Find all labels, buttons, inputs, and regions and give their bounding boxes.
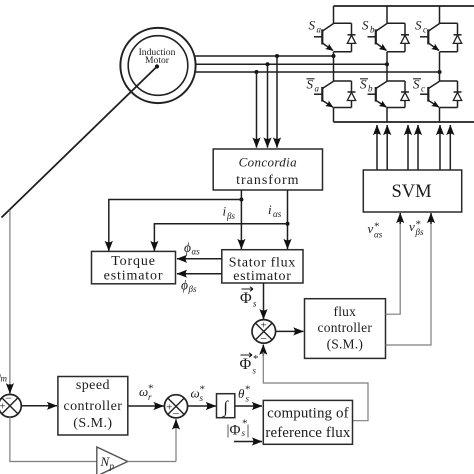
label omega_m: [0, 367, 8, 384]
leg b upper IGBT S_b: [368, 6, 410, 81]
wire: phase line c: [195, 71, 440, 73]
Stator flux estimator block: [222, 250, 303, 284]
wire: v_beta ref from flux controller to SVM (gray): [386, 220, 432, 345]
wire: gate signal Sc bar: [449, 125, 451, 170]
wire: omega_s star to integrator: [188, 405, 216, 407]
node: leg c phase junction: [438, 70, 442, 74]
label |Phi_s star|: [227, 418, 250, 439]
svg-text:S: S: [362, 18, 369, 33]
wire: Phi_s ref into flux junction (arrow): [262, 345, 264, 356]
wire: gate signal Sb: [407, 125, 409, 170]
svg-text:estimator: estimator: [104, 269, 164, 284]
svg-text:c: c: [423, 25, 427, 35]
svg-text:transform: transform: [236, 173, 299, 188]
svg-text:s: s: [246, 394, 250, 404]
svg-text:r: r: [148, 392, 152, 402]
svg-text:b: b: [370, 25, 375, 35]
induction motor M1: [120, 28, 195, 103]
svg-text:s: s: [253, 299, 257, 309]
summing junction 2: [164, 395, 187, 421]
svg-text:estimator: estimator: [233, 269, 291, 284]
label theta_s star: [238, 384, 251, 404]
wire: flux magnitude ref input: [234, 441, 262, 443]
label Phi_s vector: [240, 287, 257, 309]
svg-text:*: *: [253, 353, 259, 365]
node: i_beta branch: [239, 198, 243, 202]
svg-text:ω: ω: [139, 384, 148, 399]
svg-text:αs: αs: [374, 230, 383, 240]
wire: speed feedback (gray) from junction 1 down to Np: [10, 417, 96, 461]
label v_beta_s star: [409, 219, 424, 238]
label S_a bar: [307, 77, 320, 94]
Concordia transform block: [213, 149, 322, 190]
leg b lower IGBT S_b bar: [368, 81, 410, 122]
wire: Phi_s from stator flux estimator down to flux summing junction: [263, 283, 265, 319]
node: tap c: [255, 70, 259, 74]
svg-text:p: p: [109, 461, 115, 471]
svg-text:|: |: [247, 423, 250, 439]
speed summing junction (left): [0, 391, 21, 417]
wire: Phi_s ref routing (gray) from computing block: [263, 352, 368, 421]
svg-text:reference flux: reference flux: [265, 425, 350, 441]
svg-text:ϕ: ϕ: [184, 240, 191, 255]
wire: flux error to flux controller: [276, 330, 304, 332]
svg-text:S: S: [415, 18, 422, 33]
wire: current measurement c: [256, 72, 258, 148]
wire: Np output to junction 2 (gray): [128, 461, 176, 463]
wire: phi_alpha from stator flux est to torque est: [177, 258, 222, 260]
wire: speed sensor diagonal from motor: [2, 67, 158, 218]
label Phi_s star below junction: [240, 353, 259, 376]
svg-text:−: −: [260, 331, 267, 345]
leg c upper IGBT S_c: [420, 6, 462, 81]
svg-text:s: s: [253, 366, 257, 376]
svg-text:s: s: [242, 428, 246, 438]
label S_c bar: [413, 77, 425, 94]
svg-text:Torque: Torque: [111, 254, 156, 269]
wire: current measurement a down to Concordia: [276, 56, 278, 148]
wire: omega_m measured speed (gray vertical): [9, 210, 11, 384]
wire: gate signal Sa: [376, 125, 378, 170]
speed controller block: [58, 377, 128, 436]
wire: current measurement b: [267, 64, 269, 147]
svg-text:Concordia: Concordia: [239, 154, 297, 169]
node: tap b: [266, 62, 270, 66]
wire: DC bus bottom: [334, 121, 474, 123]
wire: gate signal Sb bar: [417, 125, 419, 170]
label i_beta_s: [223, 204, 236, 221]
svg-text:computing of: computing of: [267, 405, 349, 421]
svg-text:Motor: Motor: [145, 55, 170, 66]
svg-text:v: v: [409, 219, 415, 234]
wire: phase line b: [196, 63, 388, 65]
svg-text:βs: βs: [188, 284, 197, 294]
svg-text:a: a: [315, 84, 320, 94]
svg-text:(S.M.): (S.M.): [327, 336, 363, 351]
leg a lower IGBT S_a bar: [314, 81, 356, 122]
svg-text:(S.M.): (S.M.): [73, 416, 112, 431]
svg-text:−: −: [5, 391, 12, 405]
svg-text:+: +: [0, 401, 5, 413]
svg-text:v: v: [368, 221, 374, 236]
svg-text:ω: ω: [191, 386, 200, 401]
svg-text:S: S: [309, 18, 316, 33]
wire: i_beta from Concordia to Stator flux estimator: [240, 190, 242, 249]
svg-text:SVM: SVM: [391, 182, 431, 202]
wire: gate signal Sa bar: [386, 125, 388, 170]
leg a upper IGBT S_a: [314, 6, 356, 81]
svg-text:Φ: Φ: [240, 290, 252, 307]
svg-text:Φ: Φ: [240, 356, 252, 373]
wire: gate signal Sc: [439, 125, 441, 170]
wire: phase line a (motor to inverter leg a): [194, 55, 334, 57]
label i_alpha_s: [268, 202, 282, 219]
svg-text:i: i: [268, 202, 272, 217]
svg-text:s: s: [200, 393, 204, 403]
label omega_r star: [139, 383, 154, 402]
label S_a: [309, 18, 322, 35]
svg-text:+: +: [260, 320, 266, 332]
wire: theta_s star to computing block: [235, 405, 262, 407]
svg-text:θ: θ: [238, 386, 245, 401]
integrator block: [217, 394, 235, 418]
gain Np triangle: [97, 447, 128, 474]
wire: i_beta branch to Torque estimator: [109, 200, 242, 252]
label S_c: [415, 18, 427, 35]
svg-text:∫: ∫: [222, 398, 229, 418]
wire: i_alpha from Concordia to Stator flux estimator: [287, 190, 289, 249]
label S_b: [362, 18, 375, 35]
svg-text:αs: αs: [273, 209, 282, 219]
label v_alpha_s star: [368, 221, 383, 240]
svg-text:a: a: [317, 25, 322, 35]
Torque estimator block: [92, 251, 176, 283]
node: i_alpha branch: [286, 222, 290, 226]
svg-text:−: −: [173, 406, 180, 420]
svg-text:controller: controller: [63, 399, 122, 414]
flux controller block: [305, 299, 386, 359]
svg-text:b: b: [368, 84, 373, 94]
wire: speed error to speed controller: [21, 405, 57, 407]
node: tap a: [275, 54, 279, 58]
svg-text:speed: speed: [76, 378, 110, 393]
node: leg b phase junction: [385, 62, 389, 66]
wire: DC bus top: [334, 5, 474, 7]
svg-text:controller: controller: [318, 320, 373, 335]
svg-text:βs: βs: [415, 227, 424, 237]
svg-text:ϕ: ϕ: [181, 278, 188, 293]
label S_b bar: [360, 77, 373, 94]
node: leg a phase junction: [332, 54, 336, 58]
svg-text:+: +: [166, 402, 172, 414]
svg-text:βs: βs: [226, 211, 235, 221]
wire: v_alpha ref from flux controller to SVM (gray): [386, 220, 401, 314]
label phi_alpha_s: [184, 240, 200, 256]
label phi_beta_s: [181, 278, 197, 295]
svg-text:c: c: [421, 84, 425, 94]
wire: i_alpha branch to Torque estimator: [154, 224, 287, 251]
summing junction flux: [252, 320, 276, 346]
svg-text:|Φ: |Φ: [227, 423, 241, 439]
svg-text:m: m: [1, 374, 8, 384]
wire: omega_r ref to second junction: [128, 405, 164, 407]
leg c lower IGBT S_c bar: [420, 81, 462, 122]
SVM block: [363, 170, 461, 212]
svg-text:flux: flux: [334, 304, 357, 319]
label omega_s star: [191, 384, 206, 404]
computing of reference flux block: [263, 400, 352, 444]
wire: phi_beta from stator flux est to torque est: [177, 273, 222, 275]
svg-text:i: i: [223, 204, 227, 219]
svg-text:αs: αs: [192, 246, 201, 256]
